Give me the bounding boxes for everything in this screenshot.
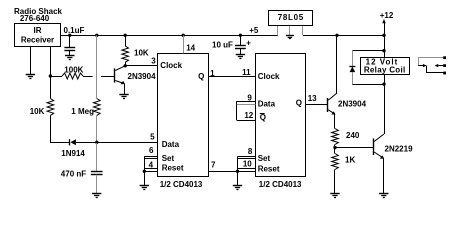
wire pin 14 (gray) [183, 35, 185, 53]
wire C3 top lead [240, 35, 242, 45]
wire data net [76, 142, 158, 144]
svg-text:Q: Q [260, 113, 266, 122]
wire 470nF bottom lead (gray) [96, 175, 98, 194]
wire data2 [237, 101, 256, 103]
relay terminal 3 [443, 72, 446, 75]
wire 1Meg net lower (gray) [96, 115, 98, 142]
svg-text:13: 13 [308, 94, 317, 103]
svg-text:Data: Data [162, 140, 180, 149]
diode D1 1N914 [70, 139, 76, 145]
relay contact fixed arm [439, 65, 444, 67]
resistor R5 240 [332, 129, 339, 145]
wire Q3 emitter lead [383, 158, 385, 193]
transistor Q1 base bar [114, 68, 116, 82]
node Q3 base junction [333, 146, 336, 149]
node 10K2 rail junction [124, 34, 127, 37]
regulator U3 78L05 box [269, 11, 313, 26]
relay terminal 1 [443, 56, 446, 59]
node C3 junction [239, 34, 242, 37]
svg-text:8: 8 [248, 147, 253, 156]
diode D1 1N914 cathode bar [69, 139, 71, 145]
svg-text:+5: +5 [249, 26, 259, 35]
wire 10K1 bottom lead [51, 116, 70, 143]
wire C1 bottom lead [69, 51, 71, 56]
svg-text:12: 12 [244, 111, 253, 120]
capacitor C3 10uF [235, 45, 246, 47]
node relay top junction [382, 49, 385, 52]
svg-text:3: 3 [151, 57, 156, 66]
wire base lead (after crossover) [101, 76, 114, 78]
svg-text:Reset: Reset [162, 164, 184, 173]
wire R6 bottom lead [334, 170, 336, 194]
resistor R3 1Meg [94, 99, 101, 116]
wire Q2 base [306, 104, 327, 106]
ground (C2) [92, 193, 101, 195]
svg-text:1K: 1K [345, 155, 355, 164]
svg-text:1N914: 1N914 [61, 149, 85, 158]
wire Qbar feedback bottom [237, 120, 256, 122]
svg-text:Receiver: Receiver [21, 36, 54, 45]
diode D2 cathode bar [349, 66, 355, 68]
svg-text:10K: 10K [30, 107, 45, 116]
flip-flop U2 1/2 CD4013 box [256, 54, 306, 177]
wire R6 top lead [334, 148, 336, 154]
flip-flop U1 1/2 CD4013 box [158, 54, 209, 177]
transistor Q1 emitter [115, 81, 123, 84]
wire clock input [125, 65, 158, 67]
node reset2 junction [236, 170, 239, 173]
relay contact pole wire (gray) [419, 58, 444, 66]
transistor Q3 emitter [374, 152, 382, 157]
svg-text:100K: 100K [64, 65, 83, 74]
relay contact lower throw [427, 66, 444, 73]
ground (U1 set/reset) [140, 185, 149, 187]
wire +12 rail [303, 35, 384, 37]
svg-text:Set: Set [162, 154, 175, 163]
wire pin7 to reset2 [208, 171, 256, 173]
svg-text:1/2 CD4013: 1/2 CD4013 [160, 180, 203, 189]
svg-text:10K: 10K [134, 49, 149, 58]
svg-text:Clock: Clock [258, 72, 280, 81]
wire set2 [238, 156, 256, 158]
svg-text:4: 4 [149, 161, 154, 170]
resistor R4 10K [122, 46, 129, 62]
node C1 top junction [68, 34, 71, 37]
wire relay diode top [352, 50, 384, 52]
ground (R6) [330, 193, 339, 195]
ground (U2 set/reset) [233, 185, 242, 187]
wire 100K right lead [83, 76, 93, 78]
wire 100K left lead [50, 76, 62, 78]
wire Qbar feedback top (gray) [237, 104, 256, 106]
ground (Q3 emitter) [379, 193, 388, 195]
ground (IR receiver) [26, 74, 35, 76]
svg-text:240: 240 [346, 131, 360, 140]
wire Q1 emitter lead [124, 84, 126, 95]
svg-text:7: 7 [211, 161, 216, 170]
svg-text:IR: IR [34, 26, 42, 35]
capacitor C2 470nF [91, 171, 103, 173]
wire +5 rail [60, 35, 278, 37]
wire +12 feed [384, 35, 386, 57]
wire 1Meg net upper (gray) [96, 35, 98, 98]
IR receiver module box [15, 24, 61, 47]
svg-text:1 Meg: 1 Meg [71, 107, 94, 116]
wire Q2 emitter lead [334, 114, 336, 128]
svg-text:Relay Coil: Relay Coil [364, 65, 406, 74]
wire R5 bottom lead [334, 145, 336, 148]
transistor Q2 collector [328, 93, 337, 100]
node pin14 rail junction [182, 34, 185, 37]
svg-text:2N2219: 2N2219 [385, 144, 414, 153]
svg-text:470 nF: 470 nF [61, 170, 86, 179]
svg-text:11: 11 [242, 68, 251, 77]
svg-text:Q: Q [198, 72, 204, 81]
node 1Meg top junction [95, 34, 98, 37]
wire C1 top lead [69, 35, 71, 47]
svg-text:10 uF: 10 uF [212, 41, 233, 50]
wire reset1 [144, 171, 158, 173]
wire relay diode bottom [352, 84, 384, 86]
capacitor C1 0.1uF [64, 47, 75, 49]
wire relay diode left lower (gray) [352, 72, 354, 84]
svg-text:0.1uF: 0.1uF [64, 26, 85, 35]
ground (U3) [286, 35, 294, 37]
svg-text:Clock: Clock [160, 61, 182, 70]
svg-text:Set: Set [258, 154, 271, 163]
resistor R2 100K [62, 73, 83, 79]
svg-text:Data: Data [258, 100, 276, 109]
resistor R6 1K [332, 154, 339, 170]
wire set1 [144, 156, 158, 158]
svg-text:78L05: 78L05 [278, 13, 304, 22]
resistor R1 10K [47, 99, 54, 116]
node +12 rail junction [382, 34, 385, 37]
wire Q1out to Clock2 [208, 76, 256, 78]
svg-text:6: 6 [149, 146, 154, 155]
wire 10K2 top lead [125, 35, 127, 46]
wire Q3 base [335, 147, 373, 149]
svg-text:276-640: 276-640 [20, 14, 50, 23]
transistor Q3 base bar [373, 139, 375, 156]
+12 arrow [382, 19, 386, 23]
wire set-reset loop U1 [144, 157, 146, 186]
ground (C1) [65, 55, 74, 57]
wire relay coil lower [384, 75, 386, 84]
node relay bottom junction [382, 82, 385, 85]
svg-text:2N3904: 2N3904 [128, 72, 157, 81]
wire U3 output pin (gray) [277, 26, 279, 35]
ground (Q1 emitter) [119, 94, 128, 96]
wire IR receiver ground leg [30, 46, 32, 74]
node diode-cap junction [95, 141, 98, 144]
wire C3 bottom lead [240, 49, 242, 55]
svg-text:+: + [246, 38, 251, 47]
wire Qbar feedback left [236, 101, 238, 120]
transistor Q1 collector [115, 66, 125, 71]
relay contact moving arm [418, 65, 423, 67]
svg-text:1/2 CD4013: 1/2 CD4013 [259, 180, 302, 189]
node Q1 collector junction [124, 64, 127, 67]
node Q2 collector rail junction [335, 34, 338, 37]
transistor Q2 base bar [327, 98, 329, 112]
diode D2 flyback [350, 67, 356, 73]
node reset1 junction [143, 170, 146, 173]
svg-text:Q: Q [296, 99, 302, 108]
wire relay diode left upper (gray) [352, 51, 354, 66]
svg-text:+12: +12 [380, 11, 394, 20]
relay terminal 2 [443, 64, 446, 67]
wire 470nF top lead (gray) [96, 142, 98, 171]
svg-text:Reset: Reset [258, 165, 280, 174]
ground (C3) [236, 54, 245, 56]
svg-text:10: 10 [243, 160, 252, 169]
svg-text:5: 5 [150, 132, 155, 141]
svg-text:14: 14 [186, 44, 195, 53]
transistor Q2 emitter [328, 110, 334, 114]
relay K1 box [361, 58, 410, 75]
wire IR receiver output leg [50, 46, 52, 76]
wire 10K1 top lead [50, 76, 52, 99]
wire U3 input pin (gray) [302, 26, 304, 35]
transistor Q3 collector [374, 134, 384, 142]
wire U3 ground pin (gray) [289, 26, 291, 35]
wire 10K2 bottom lead [125, 62, 127, 66]
wire set-reset loop U2 [237, 157, 239, 186]
node 100K left junction [49, 74, 52, 77]
svg-text:2N3904: 2N3904 [338, 99, 367, 108]
